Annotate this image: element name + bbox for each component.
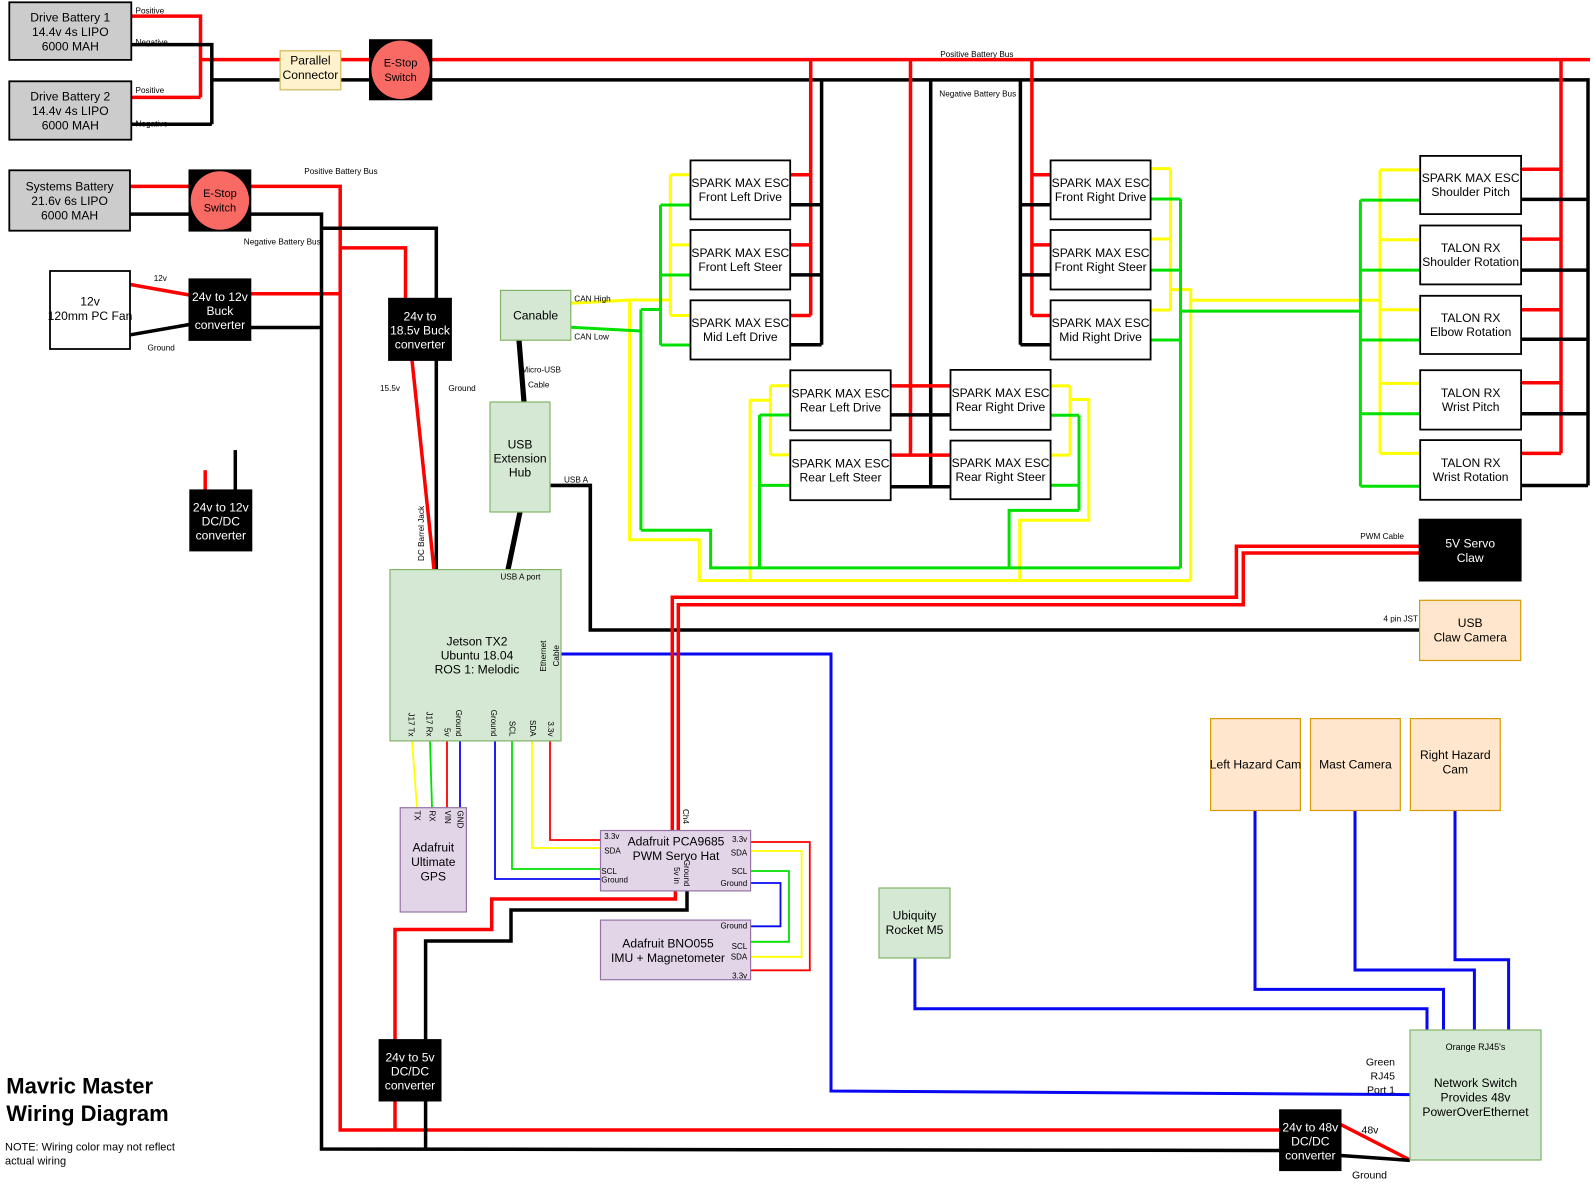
wire systems positive bus	[250, 186, 1280, 1130]
svg-text:Mid Right Drive: Mid Right Drive	[1059, 330, 1142, 344]
svg-text:5V Servo: 5V Servo	[1445, 537, 1495, 551]
svg-text:CAN Low: CAN Low	[574, 333, 609, 342]
svg-text:Mid Left Drive: Mid Left Drive	[703, 330, 778, 344]
svg-text:Negative Battery Bus: Negative Battery Bus	[939, 90, 1016, 99]
wire red power stub arm y309	[1521, 308, 1561, 312]
wire CAN low stub elbow rotation	[1360, 339, 1420, 342]
wire CAN low stub shoulder pitch	[1360, 199, 1420, 202]
wire CAN high stub shoulder pitch	[1380, 168, 1420, 171]
svg-text:Positive Battery Bus: Positive Battery Bus	[940, 50, 1013, 59]
svg-text:SPARK MAX ESC: SPARK MAX ESC	[691, 176, 789, 190]
wire CAN low rear left vertical	[758, 415, 761, 568]
svg-text:Ultimate: Ultimate	[411, 855, 456, 869]
svg-text:Ground: Ground	[682, 860, 691, 887]
wire systems negative branch to 12v buck	[250, 326, 321, 330]
wire jetson J17 Rx to GPS RX	[430, 741, 432, 808]
wire CAN high stub wrist rotation	[1380, 452, 1420, 455]
svg-text:converter: converter	[385, 1079, 435, 1093]
wire negative bus drop rear drive group	[929, 80, 933, 487]
svg-text:IMU + Magnetometer: IMU + Magnetometer	[611, 951, 725, 965]
wire CAN high to left group	[630, 299, 671, 302]
svg-text:SDA: SDA	[604, 847, 621, 856]
wire mast camera to switch	[1355, 811, 1474, 1031]
svg-text:24v to 48v: 24v to 48v	[1282, 1120, 1338, 1134]
svg-text:SCL: SCL	[508, 721, 517, 737]
svg-text:converter: converter	[1285, 1148, 1335, 1162]
svg-text:Cable: Cable	[552, 645, 561, 667]
wire servo hat SCL to BNO055	[751, 871, 789, 942]
svg-text:GND: GND	[456, 811, 465, 829]
wire black power stub arm y270	[1521, 268, 1588, 272]
wire black power stub arm y485	[1521, 484, 1588, 488]
wire black power stub left group y204	[790, 203, 822, 207]
wire left hazard cam to switch	[1255, 811, 1444, 1031]
svg-text:Port 1: Port 1	[1367, 1085, 1395, 1097]
svg-text:SCL: SCL	[732, 942, 748, 951]
wire positive bus drop right drive group	[1030, 60, 1034, 316]
wire black power stub right group y204	[1020, 203, 1050, 207]
wire servo hat 3.3v to BNO055	[751, 842, 810, 970]
svg-text:Adafruit PCA9685: Adafruit PCA9685	[628, 835, 725, 849]
svg-text:DC Barrel Jack: DC Barrel Jack	[417, 505, 426, 561]
svg-text:Ground: Ground	[601, 876, 628, 885]
wire CAN low vertical at canable	[639, 310, 642, 531]
svg-text:24v to 12v: 24v to 12v	[192, 290, 248, 304]
wire jetson ground to GPS GND	[459, 741, 461, 808]
svg-text:SPARK MAX ESC: SPARK MAX ESC	[691, 316, 789, 330]
wire red power stub left group y174	[790, 173, 811, 177]
svg-text:Adafruit BNO055: Adafruit BNO055	[622, 937, 714, 951]
battery B2 Drive Battery 2	[9, 81, 131, 139]
svg-text:5v: 5v	[443, 728, 452, 736]
wire red power stub right group y174	[1032, 173, 1051, 177]
svg-text:SPARK MAX ESC: SPARK MAX ESC	[1422, 171, 1520, 185]
svg-text:TALON RX: TALON RX	[1441, 241, 1501, 255]
wire CAN high right group vertical	[1169, 169, 1172, 310]
svg-text:3.3v: 3.3v	[604, 832, 619, 841]
wire systems battery positive to e-stop	[130, 185, 189, 189]
svg-text:Switch: Switch	[204, 203, 236, 215]
svg-text:Negative: Negative	[136, 38, 169, 47]
converter U5 24v to 5v DC/DC	[380, 1040, 441, 1101]
svg-text:6000 MAH: 6000 MAH	[41, 209, 98, 223]
svg-text:Ubuntu 18.04: Ubuntu 18.04	[441, 649, 514, 663]
wire stub black 24v-12v dcdc	[234, 450, 238, 490]
svg-text:14.4v 4s LIPO: 14.4v 4s LIPO	[32, 25, 109, 39]
wire CAN low stub mid left drive	[661, 344, 691, 347]
svg-text:Shoulder Pitch: Shoulder Pitch	[1431, 185, 1510, 199]
svg-text:6000 MAH: 6000 MAH	[42, 119, 99, 133]
svg-text:6000 MAH: 6000 MAH	[42, 40, 99, 54]
svg-text:Mavric Master: Mavric Master	[6, 1074, 153, 1099]
svg-text:TALON RX: TALON RX	[1441, 311, 1501, 325]
svg-text:21.6v 6s LIPO: 21.6v 6s LIPO	[31, 194, 108, 208]
wire systems negative bus	[250, 214, 1280, 1150]
wire positive bus drop rear drive group	[909, 60, 913, 456]
svg-text:Rear Right Drive: Rear Right Drive	[956, 400, 1046, 414]
wire drive battery 2 positive	[131, 96, 200, 100]
svg-text:Ch4: Ch4	[681, 809, 690, 824]
converter U4 24v to 12v DC/DC	[190, 490, 251, 550]
svg-text:Orange RJ45's: Orange RJ45's	[1446, 1042, 1506, 1052]
wire red power stub right group y244	[1032, 243, 1051, 247]
svg-text:Parallel: Parallel	[290, 54, 330, 68]
ESC4 SPARK MAX front right drive	[1051, 160, 1151, 219]
wire right hazard cam to switch	[1455, 811, 1509, 1031]
wire CAN low to left group	[641, 308, 661, 311]
wire CAN low down to rear group	[641, 530, 1181, 568]
wire CAN low stub rear left steer	[760, 484, 791, 487]
svg-text:Rear Left Steer: Rear Left Steer	[799, 470, 881, 484]
svg-text:converter: converter	[395, 338, 445, 352]
svg-text:Front Right Steer: Front Right Steer	[1055, 260, 1147, 274]
wire red power stub left group y315	[790, 314, 811, 318]
svg-text:Elbow Rotation: Elbow Rotation	[1430, 325, 1511, 339]
wire CAN low stub rear left drive	[760, 414, 791, 417]
network switch U11	[1410, 1030, 1541, 1160]
wire red power stub left group y244	[790, 243, 811, 247]
svg-text:RJ45: RJ45	[1370, 1071, 1395, 1083]
converter U2 24v to 12v buck	[189, 279, 250, 340]
svg-text:NOTE: Wiring color may not ref: NOTE: Wiring color may not reflect	[5, 1142, 175, 1154]
wire CAN low rear right link	[1009, 510, 1079, 568]
svg-text:3.3v: 3.3v	[546, 721, 555, 736]
wire black power stub right group y274	[1020, 273, 1050, 277]
svg-text:converter: converter	[196, 529, 246, 543]
wire ubiquity to network switch	[915, 958, 1427, 1030]
svg-text:Connector: Connector	[282, 68, 338, 82]
wire CAN high stub front right steer	[1151, 238, 1171, 241]
svg-text:3.3v: 3.3v	[732, 971, 747, 980]
wire CAN low stub front right steer	[1151, 269, 1181, 272]
parallel connector J1	[280, 51, 341, 90]
svg-text:SPARK MAX ESC: SPARK MAX ESC	[691, 246, 789, 260]
svg-text:Rear Left Drive: Rear Left Drive	[800, 401, 882, 415]
wire fan 12v	[130, 285, 189, 296]
e-stop switch SW1	[370, 40, 432, 99]
wire pwm cable outer	[672, 546, 1419, 830]
svg-text:Claw Camera: Claw Camera	[1434, 630, 1508, 644]
svg-text:RX: RX	[428, 811, 437, 823]
svg-text:PWM Servo Hat: PWM Servo Hat	[633, 849, 720, 863]
svg-text:Right Hazard: Right Hazard	[1420, 748, 1491, 762]
svg-text:14.4v 4s LIPO: 14.4v 4s LIPO	[32, 104, 109, 118]
wire positive bus drop arm group	[1559, 60, 1563, 454]
camera CAM2 left hazard cam	[1211, 719, 1301, 811]
wire systems positive branch to 18.5v buck	[340, 248, 405, 299]
svg-text:CAN High: CAN High	[574, 295, 611, 304]
svg-text:12v: 12v	[80, 294, 100, 308]
svg-text:DC/DC: DC/DC	[1291, 1134, 1330, 1148]
wire CAN high stub front right drive	[1151, 167, 1171, 170]
wire servo hat ground to BNO055	[751, 883, 781, 926]
svg-text:SCL: SCL	[732, 867, 748, 876]
ESC7 SPARK MAX rear left drive	[790, 370, 890, 430]
wire CAN high left group vertical	[669, 175, 672, 316]
svg-text:Positive: Positive	[136, 86, 165, 95]
wire CAN high rear right vertical	[1069, 386, 1072, 455]
wire CAN high rear right link	[1020, 400, 1089, 581]
servo claw M2 5V Servo Claw	[1420, 520, 1521, 581]
svg-text:Negative Battery Bus: Negative Battery Bus	[244, 237, 321, 246]
svg-text:Negative: Negative	[136, 120, 169, 129]
wire micro-usb canable to hub	[519, 340, 524, 402]
wire CAN low branch to arm	[1181, 310, 1361, 313]
svg-text:Jetson TX2: Jetson TX2	[447, 635, 508, 649]
svg-text:Ethernet: Ethernet	[539, 640, 548, 672]
svg-text:Buck: Buck	[206, 304, 234, 318]
svg-text:SPARK MAX ESC: SPARK MAX ESC	[792, 456, 890, 470]
svg-text:Canable: Canable	[513, 309, 558, 323]
ESC11 SPARK MAX shoulder pitch	[1420, 156, 1521, 214]
wire CAN high riser to right group	[1171, 290, 1191, 581]
svg-text:Ground: Ground	[454, 710, 463, 737]
wire CAN low stub wrist rotation	[1360, 485, 1420, 488]
wire CAN high stub rear right steer	[1051, 454, 1071, 457]
wire CAN high rear left vertical	[769, 386, 772, 455]
adafruit ultimate GPS U12	[400, 808, 466, 912]
wire servo hat ground to 24v-5v converter	[426, 891, 687, 1149]
wire red power stub right group y315	[1032, 314, 1051, 318]
svg-text:Front Right Drive: Front Right Drive	[1055, 190, 1147, 204]
MC2 TALON RX elbow rotation	[1420, 296, 1521, 354]
svg-text:Wrist Rotation: Wrist Rotation	[1433, 470, 1509, 484]
wire systems battery negative to e-stop	[130, 212, 189, 216]
svg-text:15.5v: 15.5v	[380, 384, 401, 393]
wire CAN low stub wrist pitch	[1360, 412, 1420, 415]
wire systems positive branch to 12v buck	[250, 292, 340, 296]
svg-text:actual wiring: actual wiring	[5, 1156, 66, 1168]
svg-text:Front Left Steer: Front Left Steer	[698, 260, 782, 274]
svg-text:Wrist Pitch: Wrist Pitch	[1442, 400, 1500, 414]
wire black power stub right group y344	[1020, 343, 1050, 347]
svg-text:DC/DC: DC/DC	[391, 1065, 430, 1079]
wire CAN high arm vertical	[1379, 170, 1382, 454]
wire negative battery bus top	[212, 80, 1588, 486]
usb extension hub U8	[490, 402, 550, 512]
ubiquity rocket M5 U10	[879, 888, 950, 958]
wire red power stub arm y239	[1521, 237, 1561, 241]
svg-text:Wiring Diagram: Wiring Diagram	[6, 1101, 168, 1126]
fan M1 12v 120mm PC Fan	[50, 271, 130, 349]
svg-text:4 pin JST: 4 pin JST	[1383, 615, 1418, 624]
svg-text:Drive Battery 2: Drive Battery 2	[30, 89, 110, 103]
svg-text:TALON RX: TALON RX	[1441, 456, 1501, 470]
wire black power stub arm y339	[1521, 337, 1588, 341]
wire CAN low riser to right group	[1179, 199, 1182, 568]
svg-text:48v: 48v	[1362, 1125, 1380, 1137]
wire CAN low stub mid right drive	[1151, 339, 1181, 342]
svg-text:SPARK MAX ESC: SPARK MAX ESC	[952, 386, 1050, 400]
wire CAN low stub front left drive	[661, 204, 691, 207]
svg-text:ROS 1: Melodic: ROS 1: Melodic	[435, 663, 520, 677]
MC3 TALON RX wrist pitch	[1420, 370, 1521, 429]
wire CAN high stub rear left steer	[770, 453, 790, 456]
svg-text:Ground: Ground	[448, 384, 476, 393]
wire red power stub arm y382	[1521, 381, 1561, 385]
wire 18.5v dc barrel jack	[412, 360, 434, 570]
svg-text:Drive Battery 1: Drive Battery 1	[30, 10, 110, 24]
wire jetson J17 Tx to GPS TX	[412, 741, 417, 808]
wire drive battery 1 negative	[131, 45, 212, 125]
wire CAN high stub mid left drive	[670, 314, 690, 317]
svg-text:Positive Battery Bus: Positive Battery Bus	[304, 167, 377, 176]
svg-text:Ground: Ground	[721, 922, 748, 931]
svg-text:Shoulder Rotation: Shoulder Rotation	[1422, 255, 1519, 269]
svg-text:J17 Tx: J17 Tx	[407, 713, 416, 737]
wire CAN low arm vertical	[1359, 200, 1362, 486]
ESC9 SPARK MAX rear right drive	[951, 370, 1051, 430]
svg-text:VIN: VIN	[443, 811, 452, 825]
svg-text:Adafruit: Adafruit	[412, 840, 454, 854]
svg-text:Systems Battery: Systems Battery	[26, 179, 115, 193]
wire CAN low rear right vertical	[1078, 415, 1081, 510]
wire CAN low from canable	[571, 327, 641, 331]
wire negative bus drop right drive group	[1019, 80, 1023, 345]
wire jetson 3.3v to servo hat	[550, 741, 601, 840]
battery B1 Drive Battery 1	[9, 2, 131, 60]
wire CAN low stub rear right drive	[1051, 414, 1079, 417]
svg-text:J17 Rx: J17 Rx	[425, 712, 434, 737]
adafruit PCA9685 servo hat U13	[601, 831, 751, 891]
svg-text:Hub: Hub	[509, 465, 531, 479]
svg-text:SPARK MAX ESC: SPARK MAX ESC	[1052, 246, 1150, 260]
svg-text:120mm PC Fan: 120mm PC Fan	[48, 309, 133, 323]
wire positive bus drop left drive group	[809, 60, 813, 316]
wire servo hat 5v in to 24v-5v converter	[395, 891, 675, 1130]
svg-text:Ground: Ground	[489, 710, 498, 737]
wire CAN high stub rear right drive	[1051, 384, 1071, 387]
svg-text:SDA: SDA	[528, 720, 537, 737]
wire 48v converter to switch	[1341, 1124, 1410, 1160]
wire CAN low stub rear right steer	[1051, 484, 1079, 487]
svg-text:Cable: Cable	[528, 381, 550, 390]
wire pwm cable inner	[678, 553, 1419, 831]
ESC3 SPARK MAX mid left drive	[691, 300, 791, 359]
svg-text:Rocket M5: Rocket M5	[886, 923, 944, 937]
wire jetson SDA to servo hat	[532, 741, 601, 848]
svg-text:DC/DC: DC/DC	[202, 515, 241, 529]
svg-text:5v in: 5v in	[672, 867, 681, 884]
svg-text:Network Switch: Network Switch	[1434, 1076, 1517, 1090]
svg-text:Provides 48v: Provides 48v	[1441, 1090, 1511, 1104]
svg-text:USB: USB	[1458, 616, 1483, 630]
svg-text:Ground: Ground	[721, 879, 748, 888]
wire CAN low stub shoulder rotation	[1360, 269, 1420, 272]
wire CAN high stub front left steer	[670, 243, 690, 246]
svg-text:SPARK MAX ESC: SPARK MAX ESC	[1052, 316, 1150, 330]
svg-text:Positive: Positive	[136, 6, 165, 15]
wire drive battery 1 positive	[131, 16, 200, 97]
svg-text:SPARK MAX ESC: SPARK MAX ESC	[1052, 176, 1150, 190]
wire CAN high stub elbow rotation	[1380, 308, 1420, 311]
svg-text:Claw: Claw	[1457, 551, 1484, 565]
wire CAN high stub shoulder rotation	[1380, 238, 1420, 241]
wire jetson ground to servo hat	[495, 741, 601, 879]
wire negative bus drop left drive group	[820, 80, 824, 345]
wire black power rear drive	[891, 413, 951, 417]
wire CAN high stub front left drive	[670, 173, 690, 176]
wire servo hat SDA to BNO055	[751, 851, 802, 957]
svg-text:SDA: SDA	[731, 952, 748, 961]
svg-text:Cam: Cam	[1443, 763, 1469, 777]
jetson TX2 U9	[390, 570, 561, 741]
wire CAN high stub rear left drive	[770, 384, 790, 387]
camera CAM3 mast camera	[1311, 719, 1401, 811]
wire CAN low left group vertical	[659, 205, 662, 345]
e-stop switch SW2	[189, 170, 250, 230]
wire 48v converter ground to switch	[1341, 1156, 1410, 1161]
svg-text:Green: Green	[1366, 1057, 1395, 1069]
wire usb-a hub to claw camera	[551, 485, 1420, 630]
wire CAN high stub wrist pitch	[1380, 382, 1420, 385]
wire usb hub to jetson usb-a port	[508, 512, 520, 570]
wire red power stub arm y169	[1521, 167, 1561, 171]
svg-text:PowerOverEthernet: PowerOverEthernet	[1422, 1105, 1529, 1119]
svg-text:Ubiquity: Ubiquity	[893, 909, 938, 923]
wire CAN high stub mid right drive	[1151, 309, 1171, 312]
wire fan ground	[130, 325, 189, 335]
svg-text:SPARK MAX ESC: SPARK MAX ESC	[952, 456, 1050, 470]
svg-text:Extension: Extension	[493, 451, 546, 465]
wire black power stub left group y274	[790, 273, 822, 277]
camera CAM1 USB claw camera	[1420, 600, 1521, 660]
wire CAN high branch to arm	[1191, 299, 1380, 302]
wire CAN low stub front right drive	[1151, 198, 1181, 201]
ESC5 SPARK MAX front right steer	[1051, 230, 1151, 290]
svg-text:Left Hazard Cam: Left Hazard Cam	[1210, 757, 1301, 771]
svg-text:TX: TX	[413, 811, 422, 822]
wire stub red 24v-12v dcdc	[203, 470, 207, 490]
svg-text:12v: 12v	[154, 274, 168, 283]
svg-text:E-Stop: E-Stop	[384, 58, 418, 70]
svg-text:Mast Camera: Mast Camera	[1319, 757, 1392, 771]
wire black power rear steer	[891, 485, 951, 489]
wire CAN high from canable	[571, 300, 630, 303]
wire black power stub arm y199	[1521, 198, 1588, 202]
svg-text:SPARK MAX ESC: SPARK MAX ESC	[792, 387, 890, 401]
camera CAM4 right hazard cam	[1410, 719, 1500, 811]
MC4 TALON RX wrist rotation	[1420, 440, 1521, 500]
wire red power rear steer	[891, 453, 951, 457]
ESC6 SPARK MAX mid right drive	[1051, 300, 1151, 359]
ESC10 SPARK MAX rear right steer	[951, 441, 1051, 500]
svg-text:converter: converter	[195, 318, 245, 332]
svg-text:24v to 12v: 24v to 12v	[193, 501, 249, 515]
MC1 TALON RX shoulder rotation	[1420, 226, 1521, 285]
svg-text:E-Stop: E-Stop	[203, 188, 237, 200]
svg-text:GPS: GPS	[421, 869, 447, 883]
wire black power stub left group y344	[790, 343, 822, 347]
svg-text:USB A: USB A	[564, 476, 589, 485]
svg-text:3.3v: 3.3v	[732, 835, 747, 844]
wire jetson SCL to servo hat	[512, 741, 601, 869]
ESC1 SPARK MAX front left drive	[691, 160, 791, 219]
svg-text:Rear Right Steer: Rear Right Steer	[956, 470, 1046, 484]
ESC8 SPARK MAX rear left steer	[790, 440, 890, 500]
svg-text:Ground: Ground	[1352, 1170, 1387, 1182]
wire positive battery bus top	[201, 58, 1591, 62]
svg-text:Front Left Drive: Front Left Drive	[699, 190, 783, 204]
svg-text:PWM Cable: PWM Cable	[1360, 532, 1404, 541]
svg-text:24v to: 24v to	[404, 310, 437, 324]
wire drive battery 2 negative	[131, 122, 212, 126]
wire CAN low stub front left steer	[661, 274, 691, 277]
canable U7	[501, 290, 571, 340]
svg-text:Ground: Ground	[148, 344, 176, 353]
svg-text:TALON RX: TALON RX	[1441, 386, 1501, 400]
svg-text:18.5v Buck: 18.5v Buck	[390, 324, 451, 338]
